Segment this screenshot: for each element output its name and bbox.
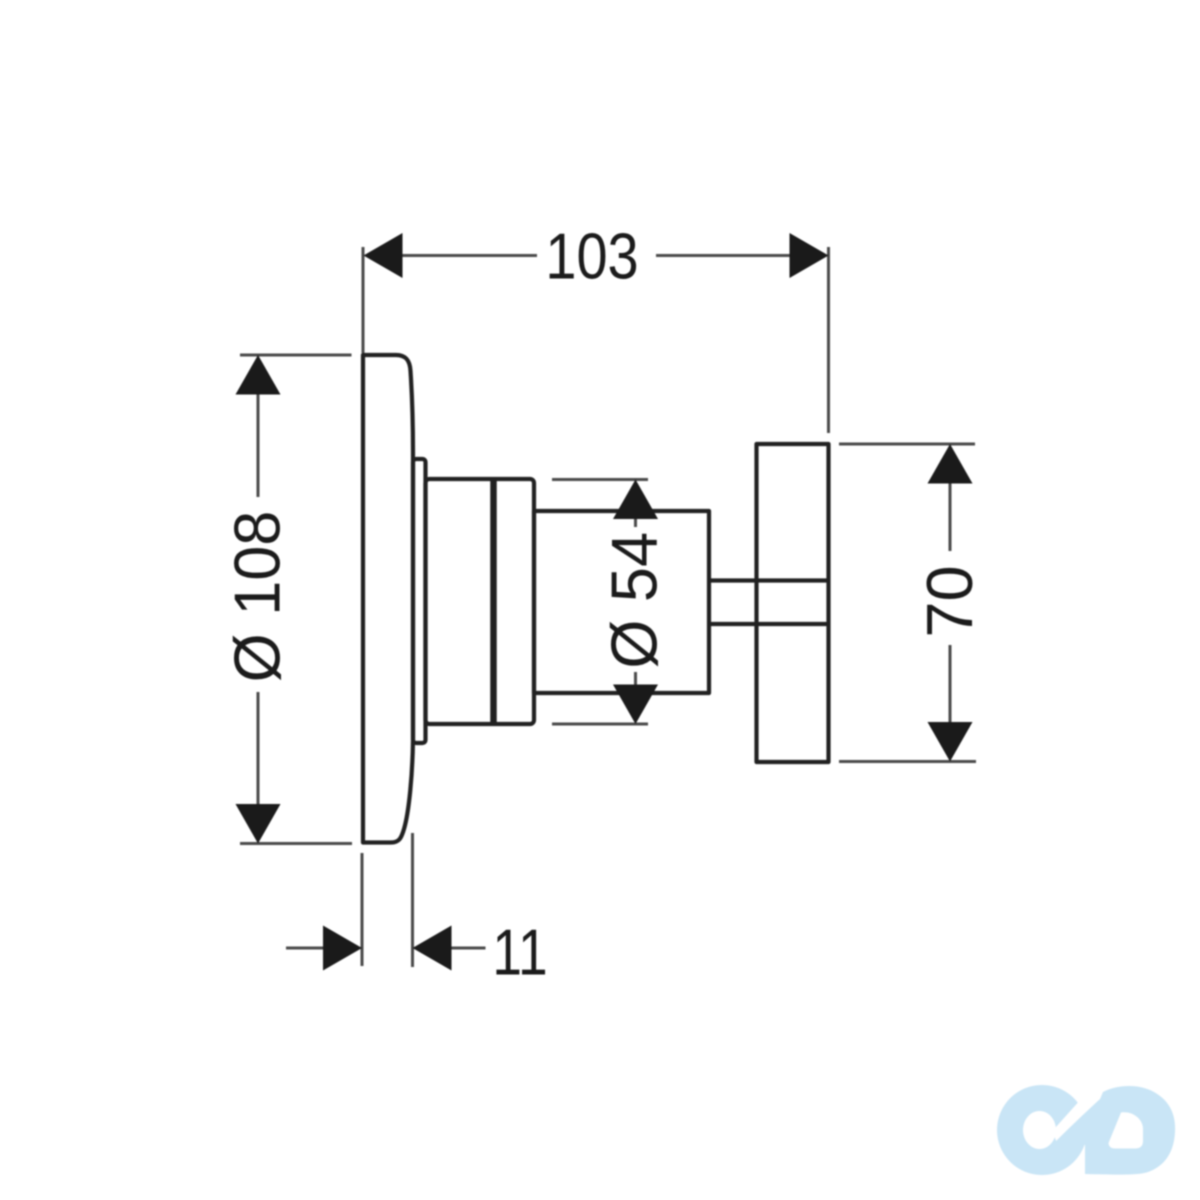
svg-text:Ø 108: Ø 108 xyxy=(220,511,293,683)
svg-text:70: 70 xyxy=(913,565,986,637)
svg-text:Ø 54: Ø 54 xyxy=(597,532,670,669)
svg-text:11: 11 xyxy=(492,915,547,988)
svg-text:103: 103 xyxy=(545,219,638,292)
